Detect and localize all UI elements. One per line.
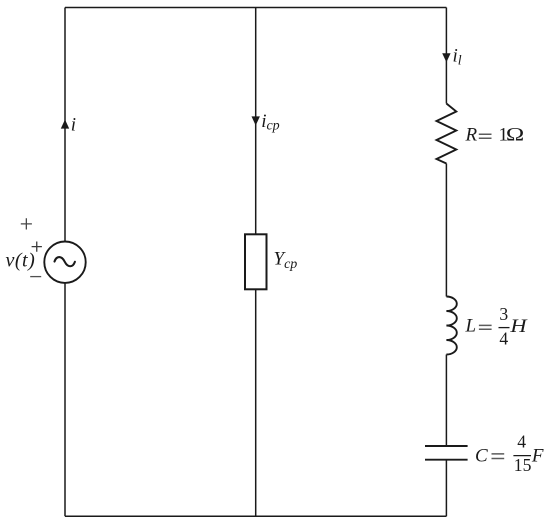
svg-text:4: 4: [499, 329, 508, 349]
svg-text:i: i: [71, 115, 76, 136]
svg-text:v(t): v(t): [6, 250, 36, 272]
svg-text:4: 4: [517, 432, 526, 452]
wire left vertical upper: [64, 8, 66, 242]
wire bottom horizontal: [65, 515, 446, 517]
current arrow i_l (down) on right wire: [442, 53, 450, 62]
wire right vertical segment 2 (resistor to inductor): [445, 164, 447, 297]
svg-text:H: H: [509, 316, 527, 337]
svg-text:C: C: [475, 445, 488, 466]
resistor R zigzag: [437, 104, 457, 164]
svg-text:Ycp: Ycp: [274, 249, 298, 273]
wire right vertical segment 4 (capacitor to bottom): [445, 460, 447, 517]
svg-text:L: L: [465, 316, 477, 337]
current arrow i_cp (down) on middle wire: [252, 116, 260, 125]
label + (inner, source terminal): [32, 242, 42, 252]
svg-text:il: il: [453, 46, 462, 69]
equals sign of C label: [492, 454, 505, 459]
svg-text:Ω: Ω: [506, 123, 524, 145]
wire middle vertical upper: [255, 8, 257, 235]
svg-text:15: 15: [514, 455, 532, 475]
label + (outer polarity): [21, 218, 32, 229]
svg-text:icp: icp: [261, 111, 280, 133]
inductor L coils: [446, 297, 456, 355]
wire middle vertical lower: [255, 289, 257, 516]
admittance box Y_cp: [245, 234, 267, 289]
label - (source terminal): [30, 276, 41, 278]
wire right vertical segment 1 (top to resistor): [445, 8, 447, 104]
wire top horizontal: [65, 7, 446, 9]
label C = 4/15 F: [475, 432, 544, 476]
label L = 3/4 H: [465, 304, 528, 349]
svg-text:3: 3: [499, 304, 508, 324]
equals sign of R label: [479, 134, 492, 138]
wire left vertical lower: [64, 283, 66, 516]
voltage source sine symbol: [55, 257, 75, 266]
wire right vertical segment 3 (inductor to capacitor): [445, 355, 447, 447]
capacitor C plates: [425, 446, 468, 460]
voltage source v(t) circle: [44, 242, 85, 283]
svg-text:F: F: [531, 445, 544, 466]
equals sign of L label: [479, 325, 492, 329]
current arrow i (up) on left wire: [61, 120, 69, 129]
